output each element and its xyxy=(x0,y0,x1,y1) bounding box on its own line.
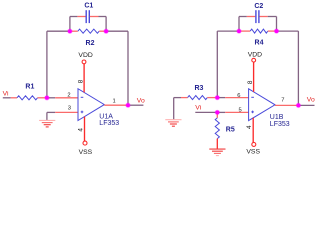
svg-text:Vo: Vo xyxy=(307,97,315,104)
svg-text:R4: R4 xyxy=(255,39,264,46)
wire feedback right vertical (right ckt) xyxy=(297,31,299,105)
ground (pin 3) xyxy=(39,119,55,121)
svg-text:Vo: Vo xyxy=(137,97,145,104)
svg-text:R1: R1 xyxy=(25,83,34,90)
svg-text:C1: C1 xyxy=(84,3,93,10)
svg-text:R2: R2 xyxy=(86,40,95,47)
svg-text:7: 7 xyxy=(281,98,284,104)
op-amp U1A xyxy=(78,89,104,121)
svg-text:LF353: LF353 xyxy=(270,121,290,128)
svg-text:R3: R3 xyxy=(195,85,204,92)
resistor R3 xyxy=(181,97,188,99)
svg-text:VDD: VDD xyxy=(78,52,92,59)
wire feedback top-left horizontal xyxy=(47,30,70,32)
wire pin2 net xyxy=(47,97,55,99)
svg-text:LF353: LF353 xyxy=(99,120,119,127)
node junction feedback-right xyxy=(103,29,108,34)
resistor R2 xyxy=(70,30,78,32)
pin 2 stub xyxy=(55,97,78,99)
capacitor C2 xyxy=(239,16,247,18)
svg-text:C2: C2 xyxy=(254,3,263,10)
wire C1 left drop xyxy=(69,17,71,32)
svg-text:1: 1 xyxy=(113,98,116,104)
svg-text:3: 3 xyxy=(68,106,71,112)
resistor R4 xyxy=(239,30,250,32)
VDD terminal circle (left) xyxy=(82,60,86,64)
svg-text:8: 8 xyxy=(77,79,84,83)
wire output right xyxy=(298,104,314,106)
node junction output left xyxy=(125,103,130,108)
ground (R3) xyxy=(165,119,181,121)
wire feedback right vertical xyxy=(127,31,129,105)
resistor R5 xyxy=(216,112,218,118)
wire Vi input (right) xyxy=(195,111,217,113)
svg-text:R5: R5 xyxy=(226,126,235,133)
wire R3 ground corner xyxy=(174,97,181,99)
node junction output right xyxy=(296,103,301,108)
wire ground stem left xyxy=(46,112,48,120)
wire feedback left vertical (right ckt) xyxy=(216,31,218,98)
wire feedback top-right (right ckt) xyxy=(277,30,299,32)
VSS terminal circle (right) xyxy=(252,142,256,146)
pin 1 output stub xyxy=(104,104,128,106)
pin 3 stub xyxy=(55,111,78,113)
pin 4 (VSS) stub xyxy=(84,117,86,141)
svg-text:6: 6 xyxy=(237,93,240,99)
op-amp U1B xyxy=(249,89,275,121)
wire pin6 net xyxy=(217,97,225,99)
pin 6 stub xyxy=(225,97,248,99)
svg-text:Vi: Vi xyxy=(3,90,9,97)
wire C1 right drop xyxy=(105,17,107,32)
node junction pin6 xyxy=(215,95,220,100)
node junction R1/feedback xyxy=(44,95,49,100)
wire output left xyxy=(128,104,143,106)
svg-text:8: 8 xyxy=(247,80,254,84)
wire C2 left drop xyxy=(238,17,240,32)
svg-text:4: 4 xyxy=(78,128,85,132)
capacitor C1 xyxy=(70,16,78,18)
svg-text:VSS: VSS xyxy=(246,148,260,155)
node junction feedback-right (right) xyxy=(274,28,279,33)
svg-text:5: 5 xyxy=(239,108,242,114)
wire pin5 net xyxy=(217,111,225,113)
wire feedback top-right horizontal xyxy=(106,30,128,32)
ground (R5) xyxy=(209,148,225,150)
VSS terminal circle (left) xyxy=(83,141,87,145)
wire Vi input stub xyxy=(3,97,11,99)
node junction feedback-left (right) xyxy=(236,28,241,33)
pin 8 (VDD) stub xyxy=(83,64,85,92)
pin 7 output stub xyxy=(275,104,298,106)
wire pin3 net xyxy=(47,111,55,113)
node junction pin5/R5 xyxy=(215,110,220,115)
svg-text:VDD: VDD xyxy=(248,52,262,59)
wire feedback top-left (right ckt) xyxy=(217,30,239,32)
VDD terminal circle (right) xyxy=(252,58,256,62)
wire C2 right drop xyxy=(276,17,278,32)
wire feedback left vertical xyxy=(46,31,48,98)
resistor R1 xyxy=(11,97,17,99)
svg-text:Vi: Vi xyxy=(195,105,201,112)
svg-text:VSS: VSS xyxy=(79,149,93,156)
pin 5 stub xyxy=(225,111,248,113)
wire ground stem R3 xyxy=(173,98,175,120)
svg-text:2: 2 xyxy=(67,93,70,99)
node junction feedback-left xyxy=(67,29,72,34)
svg-text:4: 4 xyxy=(246,125,253,129)
pin 4 stub (right) xyxy=(252,118,254,143)
pin 8 stub (right) xyxy=(253,62,255,92)
